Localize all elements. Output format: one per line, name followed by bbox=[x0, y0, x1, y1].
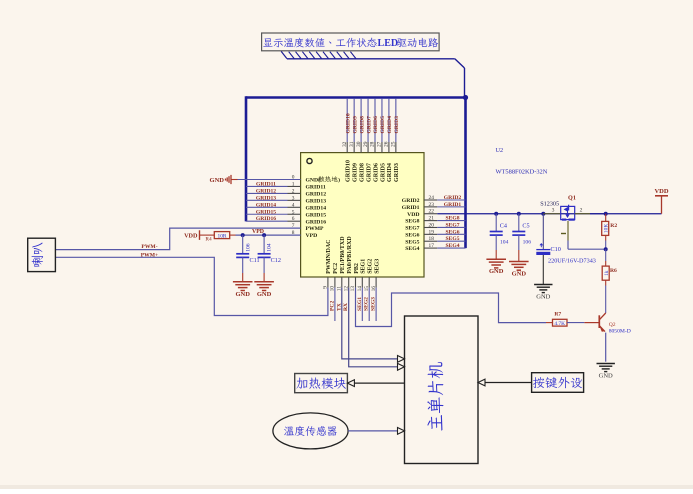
svg-text:C5: C5 bbox=[522, 223, 529, 230]
svg-text:VPD: VPD bbox=[306, 233, 318, 239]
svg-text:WT588F02KD-32N: WT588F02KD-32N bbox=[496, 169, 548, 176]
svg-text:SEG6: SEG6 bbox=[405, 232, 419, 238]
svg-text:GRID4: GRID4 bbox=[387, 116, 393, 134]
svg-text:10R: 10R bbox=[218, 233, 227, 239]
svg-text:GRID6: GRID6 bbox=[373, 116, 379, 134]
svg-text:28: 28 bbox=[370, 141, 376, 147]
svg-text:GND: GND bbox=[489, 268, 504, 275]
svg-text:PWM+: PWM+ bbox=[141, 252, 158, 258]
svg-text:PA0/PB1/RXD: PA0/PB1/RXD bbox=[347, 236, 353, 274]
svg-text:R6: R6 bbox=[610, 268, 617, 274]
svg-text:S12305: S12305 bbox=[540, 200, 559, 207]
svg-text:GRID2: GRID2 bbox=[402, 198, 420, 204]
svg-text:LED: LED bbox=[378, 38, 399, 49]
svg-text:104: 104 bbox=[500, 239, 509, 245]
svg-text:VDD: VDD bbox=[184, 233, 198, 240]
svg-text:PWM-: PWM- bbox=[141, 244, 157, 250]
svg-text:PC2: PC2 bbox=[333, 263, 339, 274]
svg-text:VDD: VDD bbox=[407, 212, 419, 218]
svg-text:10K: 10K bbox=[604, 224, 610, 233]
svg-text:GRID11: GRID11 bbox=[306, 185, 326, 191]
svg-text:GRID1: GRID1 bbox=[444, 202, 462, 208]
svg-text:SEG1: SEG1 bbox=[361, 259, 367, 274]
svg-text:SEG5: SEG5 bbox=[446, 236, 460, 242]
svg-text:30: 30 bbox=[356, 141, 362, 147]
svg-text:C10: C10 bbox=[551, 246, 561, 253]
svg-text:GND: GND bbox=[512, 271, 527, 278]
svg-text:2: 2 bbox=[580, 208, 583, 214]
svg-text:Q1: Q1 bbox=[568, 194, 576, 201]
svg-text:3: 3 bbox=[552, 208, 555, 214]
svg-text:GRID3: GRID3 bbox=[394, 116, 400, 134]
svg-text:SEG7: SEG7 bbox=[405, 226, 419, 232]
svg-text:32: 32 bbox=[342, 141, 348, 147]
svg-text:R2: R2 bbox=[610, 223, 617, 229]
svg-text:GRID9: GRID9 bbox=[352, 163, 358, 182]
svg-text:GRID3: GRID3 bbox=[394, 163, 400, 182]
svg-text:31: 31 bbox=[349, 141, 355, 147]
svg-text:GND: GND bbox=[257, 291, 272, 298]
svg-text:106: 106 bbox=[523, 239, 532, 245]
svg-text:26: 26 bbox=[384, 141, 390, 147]
svg-text:GRID16: GRID16 bbox=[306, 219, 327, 225]
svg-text:Q2: Q2 bbox=[609, 322, 616, 328]
svg-text:): ) bbox=[338, 177, 340, 184]
svg-text:PWMP: PWMP bbox=[306, 226, 325, 232]
svg-text:GRID2: GRID2 bbox=[444, 195, 462, 201]
svg-text:GRID15: GRID15 bbox=[256, 209, 276, 215]
svg-text:220UF/16V-D7343: 220UF/16V-D7343 bbox=[548, 257, 596, 264]
svg-text:GRID16: GRID16 bbox=[256, 216, 276, 222]
svg-text:GRID13: GRID13 bbox=[306, 198, 327, 204]
svg-text:C4: C4 bbox=[500, 223, 507, 230]
svg-text:GND: GND bbox=[536, 294, 550, 301]
svg-text:GRID14: GRID14 bbox=[306, 205, 327, 211]
svg-text:GRID12: GRID12 bbox=[256, 188, 276, 194]
svg-text:GND: GND bbox=[210, 177, 225, 184]
svg-text:104: 104 bbox=[267, 243, 273, 252]
svg-text:GRID10: GRID10 bbox=[345, 113, 351, 133]
svg-text:SEG3: SEG3 bbox=[374, 259, 380, 274]
svg-text:GRID10: GRID10 bbox=[346, 160, 352, 182]
svg-text:PB2: PB2 bbox=[354, 263, 360, 274]
svg-text:GRID7: GRID7 bbox=[366, 163, 372, 182]
svg-text:SEG4: SEG4 bbox=[405, 246, 419, 252]
svg-text:8050M-D: 8050M-D bbox=[609, 329, 631, 335]
svg-text:SEG6: SEG6 bbox=[446, 229, 460, 235]
svg-text:GRID5: GRID5 bbox=[380, 163, 386, 182]
svg-text:SEG8: SEG8 bbox=[405, 219, 419, 225]
svg-text:4.7K: 4.7K bbox=[554, 321, 565, 327]
svg-text:27: 27 bbox=[377, 141, 383, 147]
svg-text:GRID14: GRID14 bbox=[256, 202, 276, 208]
svg-text:VDD: VDD bbox=[654, 188, 668, 195]
svg-text:GND(: GND( bbox=[306, 177, 321, 184]
svg-text:GRID13: GRID13 bbox=[256, 195, 276, 201]
svg-text:U2: U2 bbox=[496, 147, 504, 154]
svg-text:VPD: VPD bbox=[252, 229, 264, 235]
svg-text:SEG5: SEG5 bbox=[405, 239, 419, 245]
svg-text:GRID12: GRID12 bbox=[306, 192, 327, 198]
svg-text:GRID11: GRID11 bbox=[256, 181, 276, 187]
svg-text:PWMN/DAC: PWMN/DAC bbox=[326, 239, 332, 273]
svg-text:GRID4: GRID4 bbox=[387, 163, 393, 182]
svg-text:R7: R7 bbox=[554, 311, 561, 317]
svg-text:SEG2: SEG2 bbox=[368, 259, 374, 274]
svg-text:GRID9: GRID9 bbox=[352, 116, 358, 134]
svg-text:GRID5: GRID5 bbox=[380, 116, 386, 134]
svg-text:GRID7: GRID7 bbox=[366, 116, 372, 134]
svg-text:GRID8: GRID8 bbox=[359, 116, 365, 134]
svg-text:PE1/PB0/TXD: PE1/PB0/TXD bbox=[340, 236, 346, 274]
svg-text:SEG8: SEG8 bbox=[446, 216, 460, 222]
svg-text:29: 29 bbox=[363, 141, 369, 147]
svg-text:SEG4: SEG4 bbox=[446, 243, 460, 249]
svg-text:106: 106 bbox=[245, 243, 251, 252]
svg-text:R4: R4 bbox=[205, 237, 212, 243]
svg-text:GRID1: GRID1 bbox=[402, 205, 420, 211]
svg-text:SEG7: SEG7 bbox=[446, 222, 460, 228]
svg-text:GRID6: GRID6 bbox=[373, 163, 379, 182]
svg-text:C12: C12 bbox=[271, 257, 281, 264]
svg-text:GRID15: GRID15 bbox=[306, 212, 327, 218]
svg-text:GRID8: GRID8 bbox=[359, 163, 365, 182]
svg-text:GND: GND bbox=[235, 291, 250, 298]
svg-text:1k: 1k bbox=[604, 270, 610, 276]
svg-text:25: 25 bbox=[391, 141, 397, 147]
svg-text:GND: GND bbox=[599, 373, 613, 380]
